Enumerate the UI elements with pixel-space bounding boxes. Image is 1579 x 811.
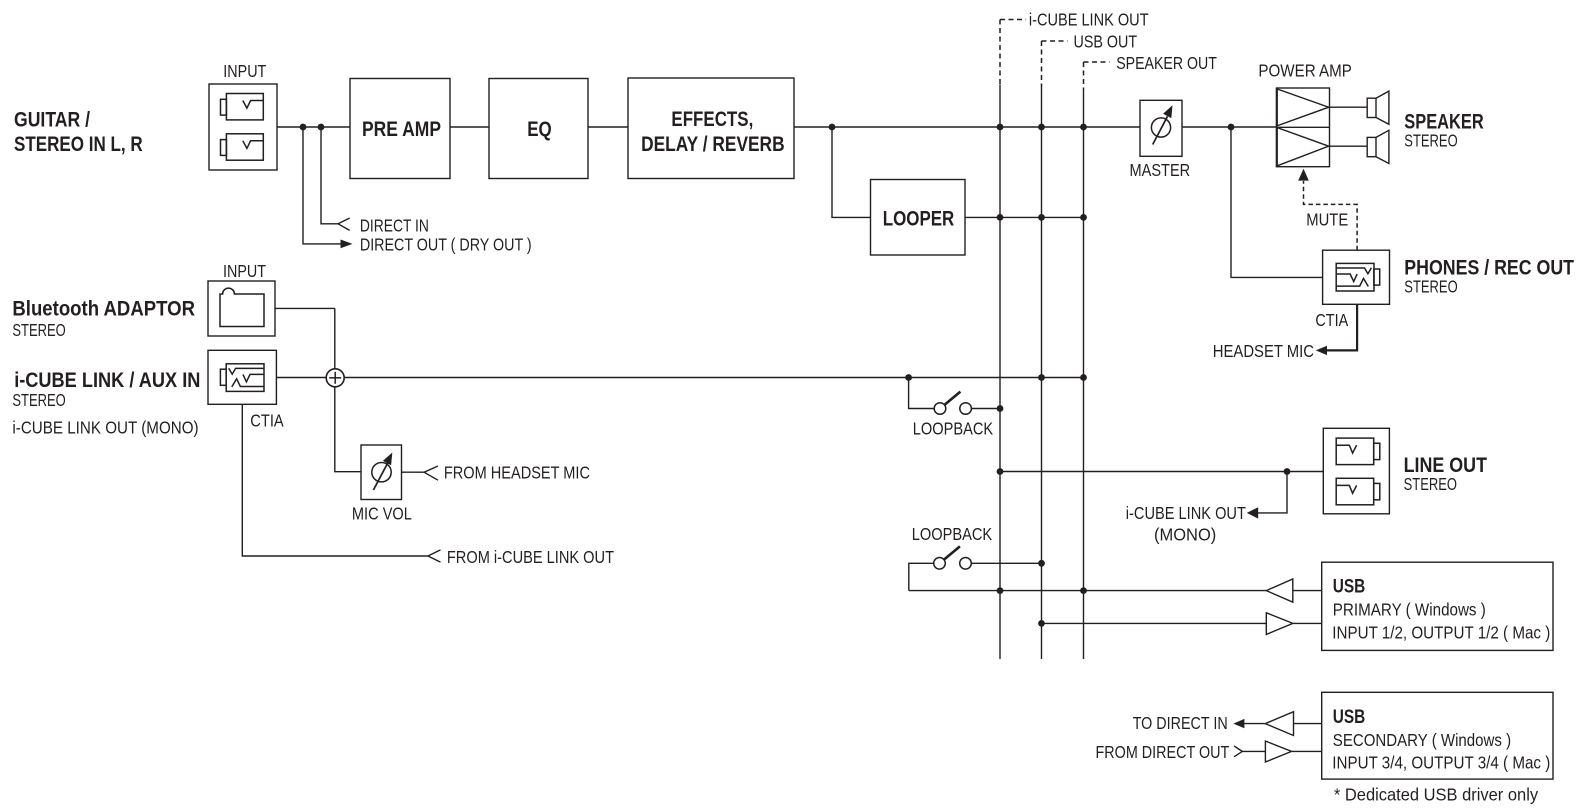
svg-text:MASTER: MASTER — [1130, 160, 1191, 180]
svg-text:USB: USB — [1333, 577, 1366, 598]
svg-text:HEADSET MIC: HEADSET MIC — [1213, 341, 1314, 361]
svg-text:LOOPER: LOOPER — [883, 207, 955, 230]
svg-text:DIRECT IN: DIRECT IN — [360, 216, 429, 236]
svg-text:GUITAR /: GUITAR / — [14, 108, 90, 131]
svg-text:STEREO: STEREO — [1404, 474, 1457, 494]
svg-text:INPUT: INPUT — [223, 61, 266, 81]
svg-text:FROM DIRECT OUT: FROM DIRECT OUT — [1096, 742, 1230, 762]
svg-text:* Dedicated USB driver only: * Dedicated USB driver only — [1334, 784, 1538, 804]
svg-text:LOOPBACK: LOOPBACK — [912, 524, 993, 544]
svg-text:STEREO: STEREO — [1404, 131, 1457, 151]
svg-text:STEREO: STEREO — [1404, 277, 1457, 297]
svg-text:(MONO): (MONO) — [1154, 524, 1216, 544]
svg-text:USB: USB — [1333, 707, 1366, 728]
svg-text:FROM HEADSET MIC: FROM HEADSET MIC — [444, 463, 590, 483]
svg-text:SECONDARY ( Windows ): SECONDARY ( Windows ) — [1333, 730, 1511, 750]
svg-text:POWER AMP: POWER AMP — [1258, 61, 1352, 81]
svg-text:i-CUBE LINK OUT: i-CUBE LINK OUT — [1126, 503, 1246, 523]
svg-text:STEREO: STEREO — [12, 390, 65, 410]
svg-text:FROM i-CUBE LINK OUT: FROM i-CUBE LINK OUT — [447, 547, 614, 567]
svg-text:MUTE: MUTE — [1306, 210, 1348, 230]
svg-text:Bluetooth ADAPTOR: Bluetooth ADAPTOR — [12, 298, 195, 321]
svg-text:CTIA: CTIA — [250, 411, 284, 431]
svg-text:USB OUT: USB OUT — [1074, 32, 1138, 52]
svg-text:EQ: EQ — [527, 118, 552, 141]
svg-text:SPEAKER OUT: SPEAKER OUT — [1116, 53, 1217, 73]
svg-text:MIC VOL: MIC VOL — [352, 503, 412, 523]
svg-text:TO DIRECT IN: TO DIRECT IN — [1133, 713, 1228, 733]
svg-text:i-CUBE LINK / AUX IN: i-CUBE LINK / AUX IN — [14, 369, 200, 392]
svg-text:LOOPBACK: LOOPBACK — [913, 419, 994, 439]
svg-text:DELAY / REVERB: DELAY / REVERB — [641, 133, 785, 156]
svg-text:DIRECT OUT ( DRY OUT ): DIRECT OUT ( DRY OUT ) — [360, 234, 532, 254]
svg-text:INPUT 1/2, OUTPUT 1/2 ( Mac ): INPUT 1/2, OUTPUT 1/2 ( Mac ) — [1332, 622, 1550, 642]
svg-text:PRIMARY ( Windows ): PRIMARY ( Windows ) — [1333, 600, 1486, 620]
svg-text:CTIA: CTIA — [1315, 310, 1348, 330]
svg-text:INPUT: INPUT — [223, 261, 266, 281]
svg-text:i-CUBE LINK OUT: i-CUBE LINK OUT — [1029, 10, 1149, 30]
svg-text:PRE AMP: PRE AMP — [362, 118, 441, 141]
svg-text:EFFECTS,: EFFECTS, — [671, 108, 753, 131]
svg-text:INPUT 3/4, OUTPUT 3/4 ( Mac ): INPUT 3/4, OUTPUT 3/4 ( Mac ) — [1332, 752, 1550, 772]
svg-text:i-CUBE LINK OUT (MONO): i-CUBE LINK OUT (MONO) — [12, 417, 198, 437]
svg-text:STEREO: STEREO — [12, 320, 65, 340]
svg-text:STEREO IN L, R: STEREO IN L, R — [14, 133, 143, 156]
